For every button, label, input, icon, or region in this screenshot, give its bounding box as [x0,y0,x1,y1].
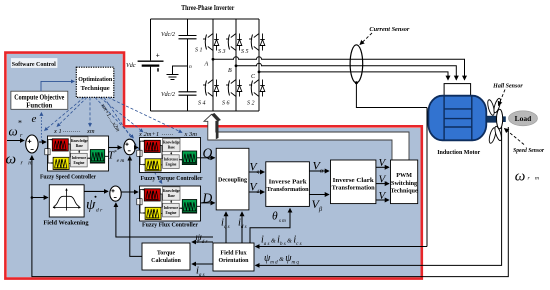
svg-text:+: + [156,52,160,60]
svg-text:Fuzzy Torque Controller: Fuzzy Torque Controller [141,175,203,182]
svg-text:Speed Sensor: Speed Sensor [513,148,545,154]
svg-text:Optimization: Optimization [78,76,112,83]
svg-text:Switching: Switching [391,180,418,187]
svg-text:S 3: S 3 [218,49,226,55]
svg-text:Fuzzy Speed Controller: Fuzzy Speed Controller [40,174,96,181]
svg-text:Transformation: Transformation [332,184,376,191]
svg-text:Vdc/2: Vdc/2 [161,32,175,38]
svg-text:x 1: x 1 [53,128,62,135]
svg-text:C: C [251,74,256,80]
svg-text:......: ...... [162,131,174,137]
svg-text:Fuzzy Flux Controller: Fuzzy Flux Controller [142,222,198,229]
svg-text:Technique: Technique [390,188,418,195]
svg-text:Orientation: Orientation [219,258,250,264]
svg-text:d r: d r [96,208,103,214]
svg-text:Technique: Technique [81,85,110,92]
svg-text:Q: Q [203,146,213,161]
svg-text:ω: ω [9,124,18,139]
svg-text:Inverse Clark: Inverse Clark [333,177,375,184]
svg-text:Vdc/2: Vdc/2 [161,92,175,98]
svg-text:S 5: S 5 [241,49,249,55]
svg-text:ω: ω [515,169,526,185]
svg-text:Transformation: Transformation [267,186,310,193]
svg-text:Current Sensor: Current Sensor [369,26,410,33]
svg-text:S 2: S 2 [247,101,255,107]
svg-text:Calculation: Calculation [151,258,181,264]
svg-text:S 6: S 6 [222,101,230,107]
svg-text:n: n [189,64,192,70]
svg-text:Decoupling: Decoupling [218,177,248,184]
svg-text:Vdc: Vdc [126,62,136,69]
svg-text:Induction Motor: Induction Motor [437,149,480,156]
svg-text:.........: ......... [63,128,81,134]
svg-text:S 1: S 1 [195,48,203,54]
svg-text:Field Flux: Field Flux [220,251,246,257]
svg-text:B: B [228,68,232,74]
svg-text:S 4: S 4 [198,100,206,107]
svg-text:Three-Phase Inverter: Three-Phase Inverter [181,3,235,12]
svg-text:ψ: ψ [86,197,96,213]
svg-text:PWM: PWM [396,172,412,179]
svg-text:r m: r m [21,161,35,167]
svg-text:Field Weakening: Field Weakening [43,220,89,227]
svg-text:Torque: Torque [157,251,176,257]
svg-text:r m: r m [528,176,542,182]
svg-text:e: e [32,113,37,125]
svg-text:Load: Load [515,114,533,123]
svg-text:D: D [202,191,213,206]
svg-text:A: A [204,62,209,68]
svg-text:Hall Sensor: Hall Sensor [492,84,523,90]
svg-text:Function: Function [26,102,52,109]
svg-text:Compute Objective: Compute Objective [14,95,64,102]
svg-text:Inverse Park: Inverse Park [269,179,308,186]
svg-text:ω: ω [6,152,17,168]
svg-text:*: * [18,119,22,128]
svg-text:xm: xm [86,128,95,135]
svg-text:Software Control: Software Control [12,61,56,68]
